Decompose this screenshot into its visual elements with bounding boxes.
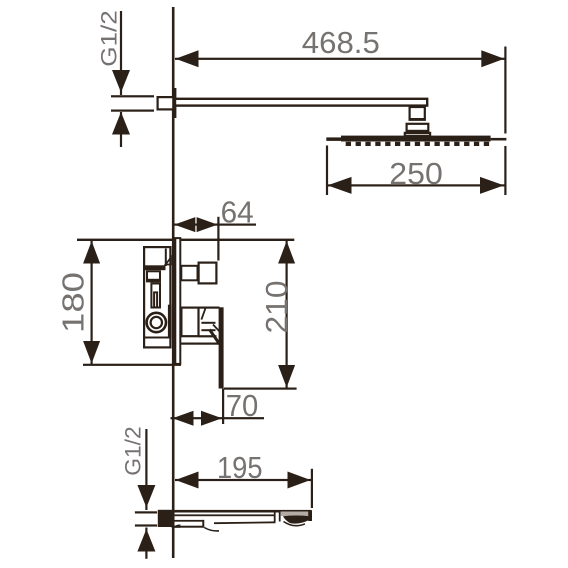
spout tip dark curve	[283, 516, 310, 524]
arrowhead 250 left	[328, 177, 352, 194]
dimension line 180	[91, 240, 93, 365]
valve nub top right	[166, 258, 172, 265]
handle diagonal 1	[201, 307, 205, 319]
spout step vertical	[202, 520, 204, 528]
valve inner rect	[147, 271, 160, 280]
valve dark band right	[168, 305, 172, 339]
spout bottom left blob	[174, 524, 181, 527]
valve bottom line	[144, 337, 168, 339]
handle base	[181, 308, 198, 337]
handle lower line	[181, 343, 219, 345]
arrowhead 250 right	[480, 177, 504, 194]
handle mid line 1	[201, 322, 215, 324]
dimension line 468.5	[175, 58, 505, 60]
svg-text:G1/2: G1/2	[121, 426, 146, 476]
shower arm	[175, 99, 427, 106]
valve cartridge outer circle	[147, 313, 166, 332]
svg-text:250: 250	[389, 156, 443, 191]
svg-text:210: 210	[259, 281, 294, 334]
tick G1/2 bottom upper	[135, 511, 157, 513]
shower arm wall bar	[172, 88, 176, 118]
shower head plate thin right	[491, 138, 507, 141]
extension line 64	[217, 217, 219, 261]
arrowhead G1/2 bottom up	[137, 529, 155, 552]
dimension G1/2 top vertical line upper	[120, 11, 122, 95]
valve body top band	[144, 265, 166, 270]
shower arm wall flange	[158, 97, 174, 109]
shower head neck top band	[409, 106, 426, 109]
valve slot housing	[151, 284, 160, 308]
spout step curve	[204, 528, 219, 531]
arrowhead 180 up	[83, 241, 100, 264]
shower head neck	[410, 107, 425, 120]
arrowhead G1/2 top down	[112, 70, 130, 93]
spout second line	[173, 514, 276, 516]
arrowhead 64 right	[197, 217, 218, 232]
valve slot	[154, 292, 157, 307]
handle mid line 2	[201, 329, 215, 331]
dimension line 195	[175, 479, 312, 481]
arrowhead 70 left	[173, 411, 194, 426]
valve cartridge inner circle	[151, 317, 162, 328]
arrowhead G1/2 top up	[112, 112, 130, 135]
extension line right upper	[504, 47, 506, 134]
wall line	[172, 7, 175, 558]
text 70	[226, 388, 258, 423]
dimension line 70	[171, 417, 265, 419]
dimension G1/2 top vertical line lower	[120, 112, 122, 147]
dimension G1/2 bottom line upper	[145, 429, 147, 510]
text 210	[259, 281, 294, 334]
trim plate	[175, 238, 180, 364]
spout divider 1	[274, 512, 276, 522]
shower head plate	[341, 136, 491, 142]
arrowhead 70 right	[201, 411, 222, 426]
dimension line 64	[173, 224, 256, 226]
arrowhead 195 left	[176, 472, 199, 489]
arrowhead 180 down	[83, 341, 100, 364]
shower head nut	[407, 124, 429, 131]
extension line right lower	[504, 146, 506, 195]
arrowhead G1/2 bottom down	[137, 485, 155, 508]
arrowhead 468.5 left	[176, 50, 199, 67]
outlet pipe	[181, 266, 197, 281]
handle diagonal 2	[213, 325, 220, 333]
valve body	[144, 247, 170, 347]
label G1/2 bottom	[121, 426, 146, 476]
dimension line 250	[327, 184, 505, 186]
text 64	[221, 195, 254, 230]
outlet block	[199, 263, 217, 284]
text 180	[56, 272, 91, 333]
dimension G1/2 bottom line lower	[145, 528, 147, 559]
tick G1/2 top lower	[111, 110, 154, 112]
handle mid top line	[199, 307, 220, 309]
extension line 250 left	[326, 146, 328, 196]
spout tip bottom curve	[284, 522, 306, 526]
tick G1/2 top upper	[111, 95, 154, 97]
shower head nozzles	[346, 142, 489, 146]
svg-text:G1/2: G1/2	[97, 10, 122, 67]
arrowhead 195 right	[288, 472, 311, 489]
valve body inner top rect right edge	[165, 249, 167, 267]
tick 180 bottom	[83, 364, 181, 366]
arrowhead 210 up	[278, 241, 295, 264]
extension line 70	[222, 389, 224, 424]
handle mid bottom line	[199, 335, 217, 337]
spout divider 2	[279, 512, 281, 522]
text 195	[217, 450, 263, 485]
tick top shared 180 210	[77, 239, 294, 241]
handle lever bar	[219, 307, 224, 388]
arrowhead 64 left	[174, 217, 195, 232]
spout third line	[173, 520, 204, 522]
spout top line	[173, 510, 312, 513]
dimension line 210	[286, 240, 288, 388]
spout tip gray band	[281, 512, 309, 517]
tick 210 bottom	[224, 388, 297, 390]
text 468.5	[302, 25, 380, 60]
arrowhead 210 down	[278, 365, 295, 388]
valve inner band	[146, 280, 161, 283]
shower head plate thin left	[326, 137, 341, 141]
label G1/2 top	[97, 10, 122, 67]
spout lower line mid	[214, 521, 276, 524]
spout bottom left line	[172, 526, 204, 528]
handle diagonal 3	[210, 330, 220, 345]
spout tip right edge	[308, 511, 312, 522]
spout inlet black square	[158, 510, 173, 527]
shower head neck bottom band	[409, 118, 426, 121]
shower head base	[405, 133, 430, 136]
svg-text:180: 180	[56, 272, 91, 333]
svg-text:468.5: 468.5	[302, 25, 380, 60]
arrowhead 468.5 right	[481, 50, 504, 67]
extension line 195 right	[311, 469, 313, 508]
text 250	[389, 156, 443, 191]
tick G1/2 bottom lower	[135, 524, 157, 526]
